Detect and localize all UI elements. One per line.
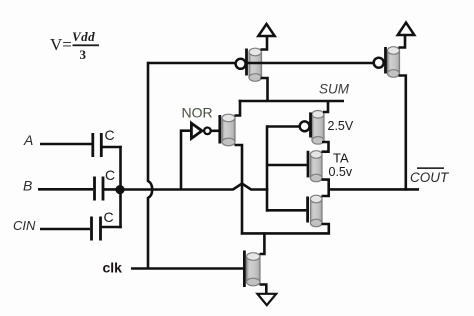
formula V = Vdd/3 (50, 29, 99, 62)
power Vdd symbol (left) (258, 24, 274, 36)
transistor M6 channel (bottom NMOS cylinder) (310, 195, 322, 227)
wire: SUM rail (239, 100, 344, 103)
transistor M3 gate bar (218, 115, 221, 144)
svg-text:TA: TA (333, 151, 349, 166)
svg-text:NOR: NOR (182, 105, 213, 121)
transistor M6 gate bar (bottom NMOS) (306, 197, 309, 223)
wire: clk horizontal (131, 267, 244, 270)
node: summing junction dot (115, 185, 124, 194)
wire: M4 drain to M5 drain (322, 142, 329, 152)
capacitor C (CIN input) (92, 217, 122, 241)
wire: SUM drop to M4 source (323, 101, 328, 112)
transistor M7 channel (clk NMOS cylinder) (247, 253, 261, 286)
wire: M3 drain up to SUM rail (235, 100, 241, 116)
inverter U1 (NOR) triangle (191, 123, 202, 138)
wire: input CIN (40, 228, 90, 231)
wire: M7 drain up to lower rail (260, 232, 265, 254)
wire: center node wire with crossover hops (120, 184, 268, 190)
transistor M1 gate bar (top-left PMOS) (245, 49, 248, 76)
svg-text:CIN: CIN (13, 218, 36, 233)
ground symbol (257, 294, 276, 305)
power Vdd symbol (right) (398, 23, 415, 36)
transistor M4 gate bar (2.5V PMOS) (309, 112, 312, 137)
transistor M5 gate bar (TA NMOS) (307, 151, 310, 178)
wire: M3 source down to lower rail (235, 145, 243, 235)
svg-text:3: 3 (80, 47, 87, 62)
svg-text:2.5V: 2.5V (328, 119, 354, 133)
svg-text:COUT: COUT (410, 170, 450, 185)
wire: M1 drain down to SUM rail (261, 78, 268, 101)
transistor M3 channel (NOR NMOS cylinder) (222, 114, 235, 146)
wire: vertical clk rail (148, 62, 152, 270)
wire: M5 source to M6 drain (322, 180, 329, 196)
wire: gate bus vertical (266, 125, 269, 212)
svg-text:C: C (105, 167, 115, 183)
wire: gate bus to M4 bubble (267, 125, 300, 128)
transistor M4 channel (2.5V PMOS cylinder) (312, 111, 324, 145)
wire: M7 source to ground (260, 285, 267, 294)
wire: gate bus to M6 gate (267, 209, 306, 212)
transistor M1 gate bubble (236, 59, 246, 69)
wire: M2 source to Vdd (399, 35, 406, 48)
wire: M2 drain down to COUT rail (399, 76, 406, 191)
wire: M6 source down to lower rail (241, 224, 329, 233)
wire: inverter output to M3 gate (211, 130, 220, 133)
transistor M4 gate bubble (300, 121, 310, 131)
transistor M2 gate bar (top-right PMOS) (384, 47, 387, 74)
wire: COUT rail (329, 188, 419, 191)
wire: M1 source to Vdd (261, 36, 268, 50)
wire: input A (40, 143, 92, 146)
svg-text:V=: V= (50, 35, 72, 54)
label COUT with overline (410, 167, 450, 185)
transistor M7 gate bar (clk NMOS) (243, 251, 246, 288)
transistor M1 channel (top-left PMOS cylinder) (249, 48, 262, 81)
transistor M5 channel (TA NMOS cylinder) (310, 151, 322, 182)
svg-text:C: C (105, 127, 115, 143)
wire: capacitor output bus (119, 146, 122, 229)
transistor M2 channel (top-right PMOS cylinder) (388, 47, 400, 78)
svg-text:clk: clk (103, 260, 123, 276)
svg-text:Vdd: Vdd (72, 29, 95, 44)
inverter U1 output bubble (204, 128, 211, 135)
svg-text:B: B (23, 178, 32, 194)
wire: pmos gate line from clk rail to both PMOS gates (148, 62, 374, 65)
svg-text:0.5v: 0.5v (329, 165, 353, 179)
svg-text:SUM: SUM (319, 82, 350, 97)
wire: inverter input stem (181, 131, 191, 190)
wire: input B (38, 188, 93, 191)
wire: gate bus to M5 gate (267, 164, 307, 167)
svg-text:C: C (104, 209, 114, 225)
capacitor C (B input) (95, 177, 122, 201)
capacitor C (A input) (93, 133, 122, 157)
svg-text:A: A (23, 132, 33, 148)
transistor M2 gate bubble (374, 58, 384, 68)
